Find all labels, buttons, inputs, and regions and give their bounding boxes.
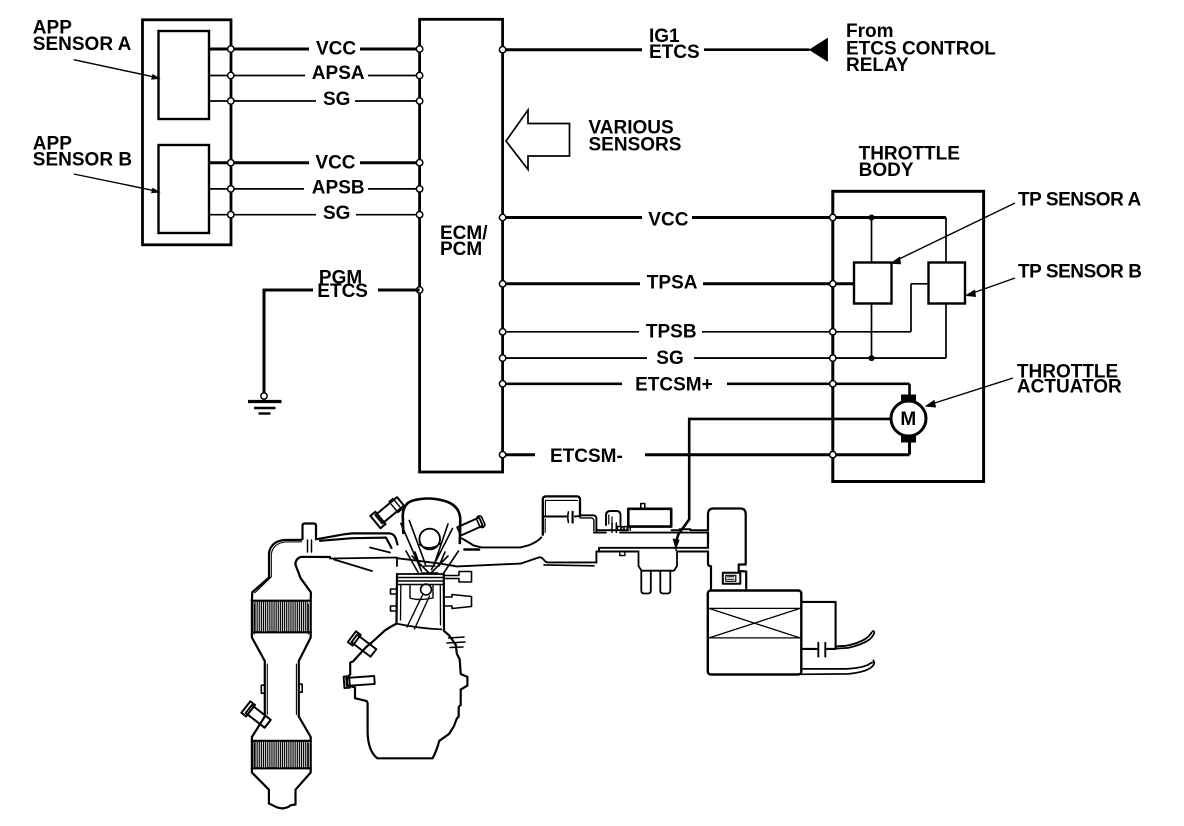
svg-text:TPSB: TPSB <box>646 322 697 343</box>
intake snorkel upper <box>836 631 875 648</box>
wire SG up to TP B bottom <box>945 304 947 359</box>
air intake duct <box>708 509 746 589</box>
injector stub left <box>370 495 405 528</box>
label THROTTLE ACTUATOR <box>1017 361 1122 397</box>
TP sensor A box <box>854 263 892 304</box>
cylinder bottom edge <box>397 624 442 630</box>
air filter element <box>709 608 800 638</box>
label ECM/PCM <box>440 223 488 260</box>
junction dot on VCC <box>869 215 875 221</box>
throttle bore circle <box>419 529 440 550</box>
svg-text:RELAY: RELAY <box>846 55 909 76</box>
TP sensor B box <box>929 263 966 304</box>
svg-text:TP SENSOR B: TP SENSOR B <box>1018 261 1142 282</box>
piston pin <box>421 584 432 595</box>
leader line to sensor A <box>74 60 161 80</box>
svg-text:ETCSM+: ETCSM+ <box>635 374 713 395</box>
duct connector box <box>723 573 741 584</box>
svg-text:ETCS: ETCS <box>649 42 700 63</box>
intake manifold arm lower <box>330 548 397 572</box>
label From ETCS CONTROL RELAY <box>846 21 996 76</box>
wire ETCSM- up to motor <box>908 441 911 455</box>
label APP SENSOR B <box>33 134 132 171</box>
intake snorkel lower <box>801 660 874 674</box>
svg-text:SG: SG <box>656 348 683 369</box>
intake pipe from plenum to resonator <box>397 537 596 566</box>
wire ETCSM+ <box>502 374 910 395</box>
ground node circle <box>261 393 267 399</box>
wire PGM ETCS <box>264 268 420 302</box>
label VARIOUS SENSORS <box>589 117 682 155</box>
wire APSA <box>209 63 420 84</box>
small step fitting <box>618 527 629 530</box>
air cleaner side chamber <box>801 602 835 657</box>
injector stub right <box>457 515 486 537</box>
leader to TP sensor A <box>890 203 1016 264</box>
leader to throttle actuator <box>925 378 1014 408</box>
wire to ground <box>263 289 266 394</box>
wire SG (tp) <box>502 348 946 369</box>
wire TPSB <box>502 322 911 343</box>
svg-text:SENSOR B: SENSOR B <box>33 150 132 171</box>
svg-text:TPSA: TPSA <box>647 273 698 294</box>
engine mount stub upper left <box>348 631 378 658</box>
svg-text:M: M <box>900 409 916 430</box>
svg-text:BODY: BODY <box>859 160 914 181</box>
ground symbol <box>248 402 282 414</box>
svg-text:SENSORS: SENSORS <box>589 135 682 156</box>
wire VCC (sensor A) <box>209 38 420 59</box>
svg-text:VCC: VCC <box>315 153 355 174</box>
intake plenum dome <box>403 499 461 544</box>
throttle actuator motor circle <box>891 395 926 443</box>
svg-text:SENSOR A: SENSOR A <box>33 34 132 55</box>
lower pipe run to air duct <box>596 548 708 563</box>
APP sensor outer box <box>143 20 232 245</box>
svg-text:PCM: PCM <box>440 239 482 260</box>
wire TPSB step up to TP B left <box>911 284 929 332</box>
APP sensor B inner box <box>159 145 210 233</box>
catalytic converter 1 <box>252 601 311 717</box>
wire ETCSM+ down to motor <box>908 384 911 396</box>
intake pipe upper run <box>594 527 708 533</box>
block right stubs <box>444 572 472 583</box>
svg-text:ETCSM-: ETCSM- <box>550 446 623 467</box>
pin circles on ECM right edge <box>499 47 505 458</box>
label APP SENSOR A <box>33 17 132 55</box>
crankcase / transmission blob <box>344 624 468 759</box>
ECM/PCM box <box>420 19 503 472</box>
node circles on APP box edge <box>228 46 234 218</box>
purge valve fitting <box>606 511 621 532</box>
air cleaner housing <box>708 591 802 675</box>
wire VCC (tp) <box>502 209 946 230</box>
label THROTTLE BODY <box>859 143 960 181</box>
engine illustration <box>241 495 874 808</box>
exhaust O2 sensor stub <box>303 524 317 553</box>
throttle body box <box>833 191 984 481</box>
block left notches <box>391 589 398 611</box>
svg-text:ETCS: ETCS <box>317 281 368 302</box>
catalytic converter 2 <box>252 717 311 804</box>
secondary O2 sensor stub <box>241 701 272 729</box>
wire TP A bottom to SG <box>871 304 873 359</box>
exhaust mid pipe tabs <box>261 664 302 715</box>
leader line to sensor B <box>74 174 161 193</box>
exhaust front pipe <box>252 533 398 600</box>
wire ETCSM- <box>502 446 910 467</box>
resonator chamber <box>543 496 597 534</box>
svg-text:APSA: APSA <box>312 63 365 84</box>
various sensors arrow <box>506 110 570 170</box>
wire TPSA <box>502 273 855 294</box>
junction dot on SG <box>869 355 875 361</box>
wire IG1 ETCS <box>502 26 810 63</box>
intake V runners <box>401 521 459 575</box>
wire VCC branch down to TP A <box>871 218 873 263</box>
connecting rod <box>407 595 430 629</box>
throttle body unit on engine <box>628 504 671 527</box>
svg-text:SG: SG <box>323 89 350 110</box>
engine mount stub lower left <box>344 675 375 689</box>
arrow to ETCS control relay <box>809 38 828 62</box>
injector bracket bell <box>639 553 678 594</box>
wire SG (sensor B) <box>209 203 420 224</box>
right side ribs <box>447 637 465 648</box>
svg-text:TP SENSOR A: TP SENSOR A <box>1018 189 1142 210</box>
wire motor to engine pointer <box>673 419 891 551</box>
svg-text:VCC: VCC <box>648 209 688 230</box>
tailpipe tip <box>269 803 296 808</box>
leader to TP sensor B <box>965 278 1016 297</box>
pin circles on throttle body left edge <box>830 214 836 458</box>
svg-text:APSB: APSB <box>312 178 365 199</box>
wire VCC down to TP B <box>945 218 947 263</box>
pin circles on ECM left edge <box>416 46 422 293</box>
wire VCC (sensor B) <box>209 153 420 174</box>
svg-text:SG: SG <box>323 203 350 224</box>
svg-text:VCC: VCC <box>316 38 356 59</box>
APP sensor A inner box <box>159 31 210 119</box>
wire APSB <box>209 178 420 199</box>
cylinder block <box>391 572 472 632</box>
wire SG (sensor A) <box>209 89 420 110</box>
svg-text:ACTUATOR: ACTUATOR <box>1017 376 1122 397</box>
